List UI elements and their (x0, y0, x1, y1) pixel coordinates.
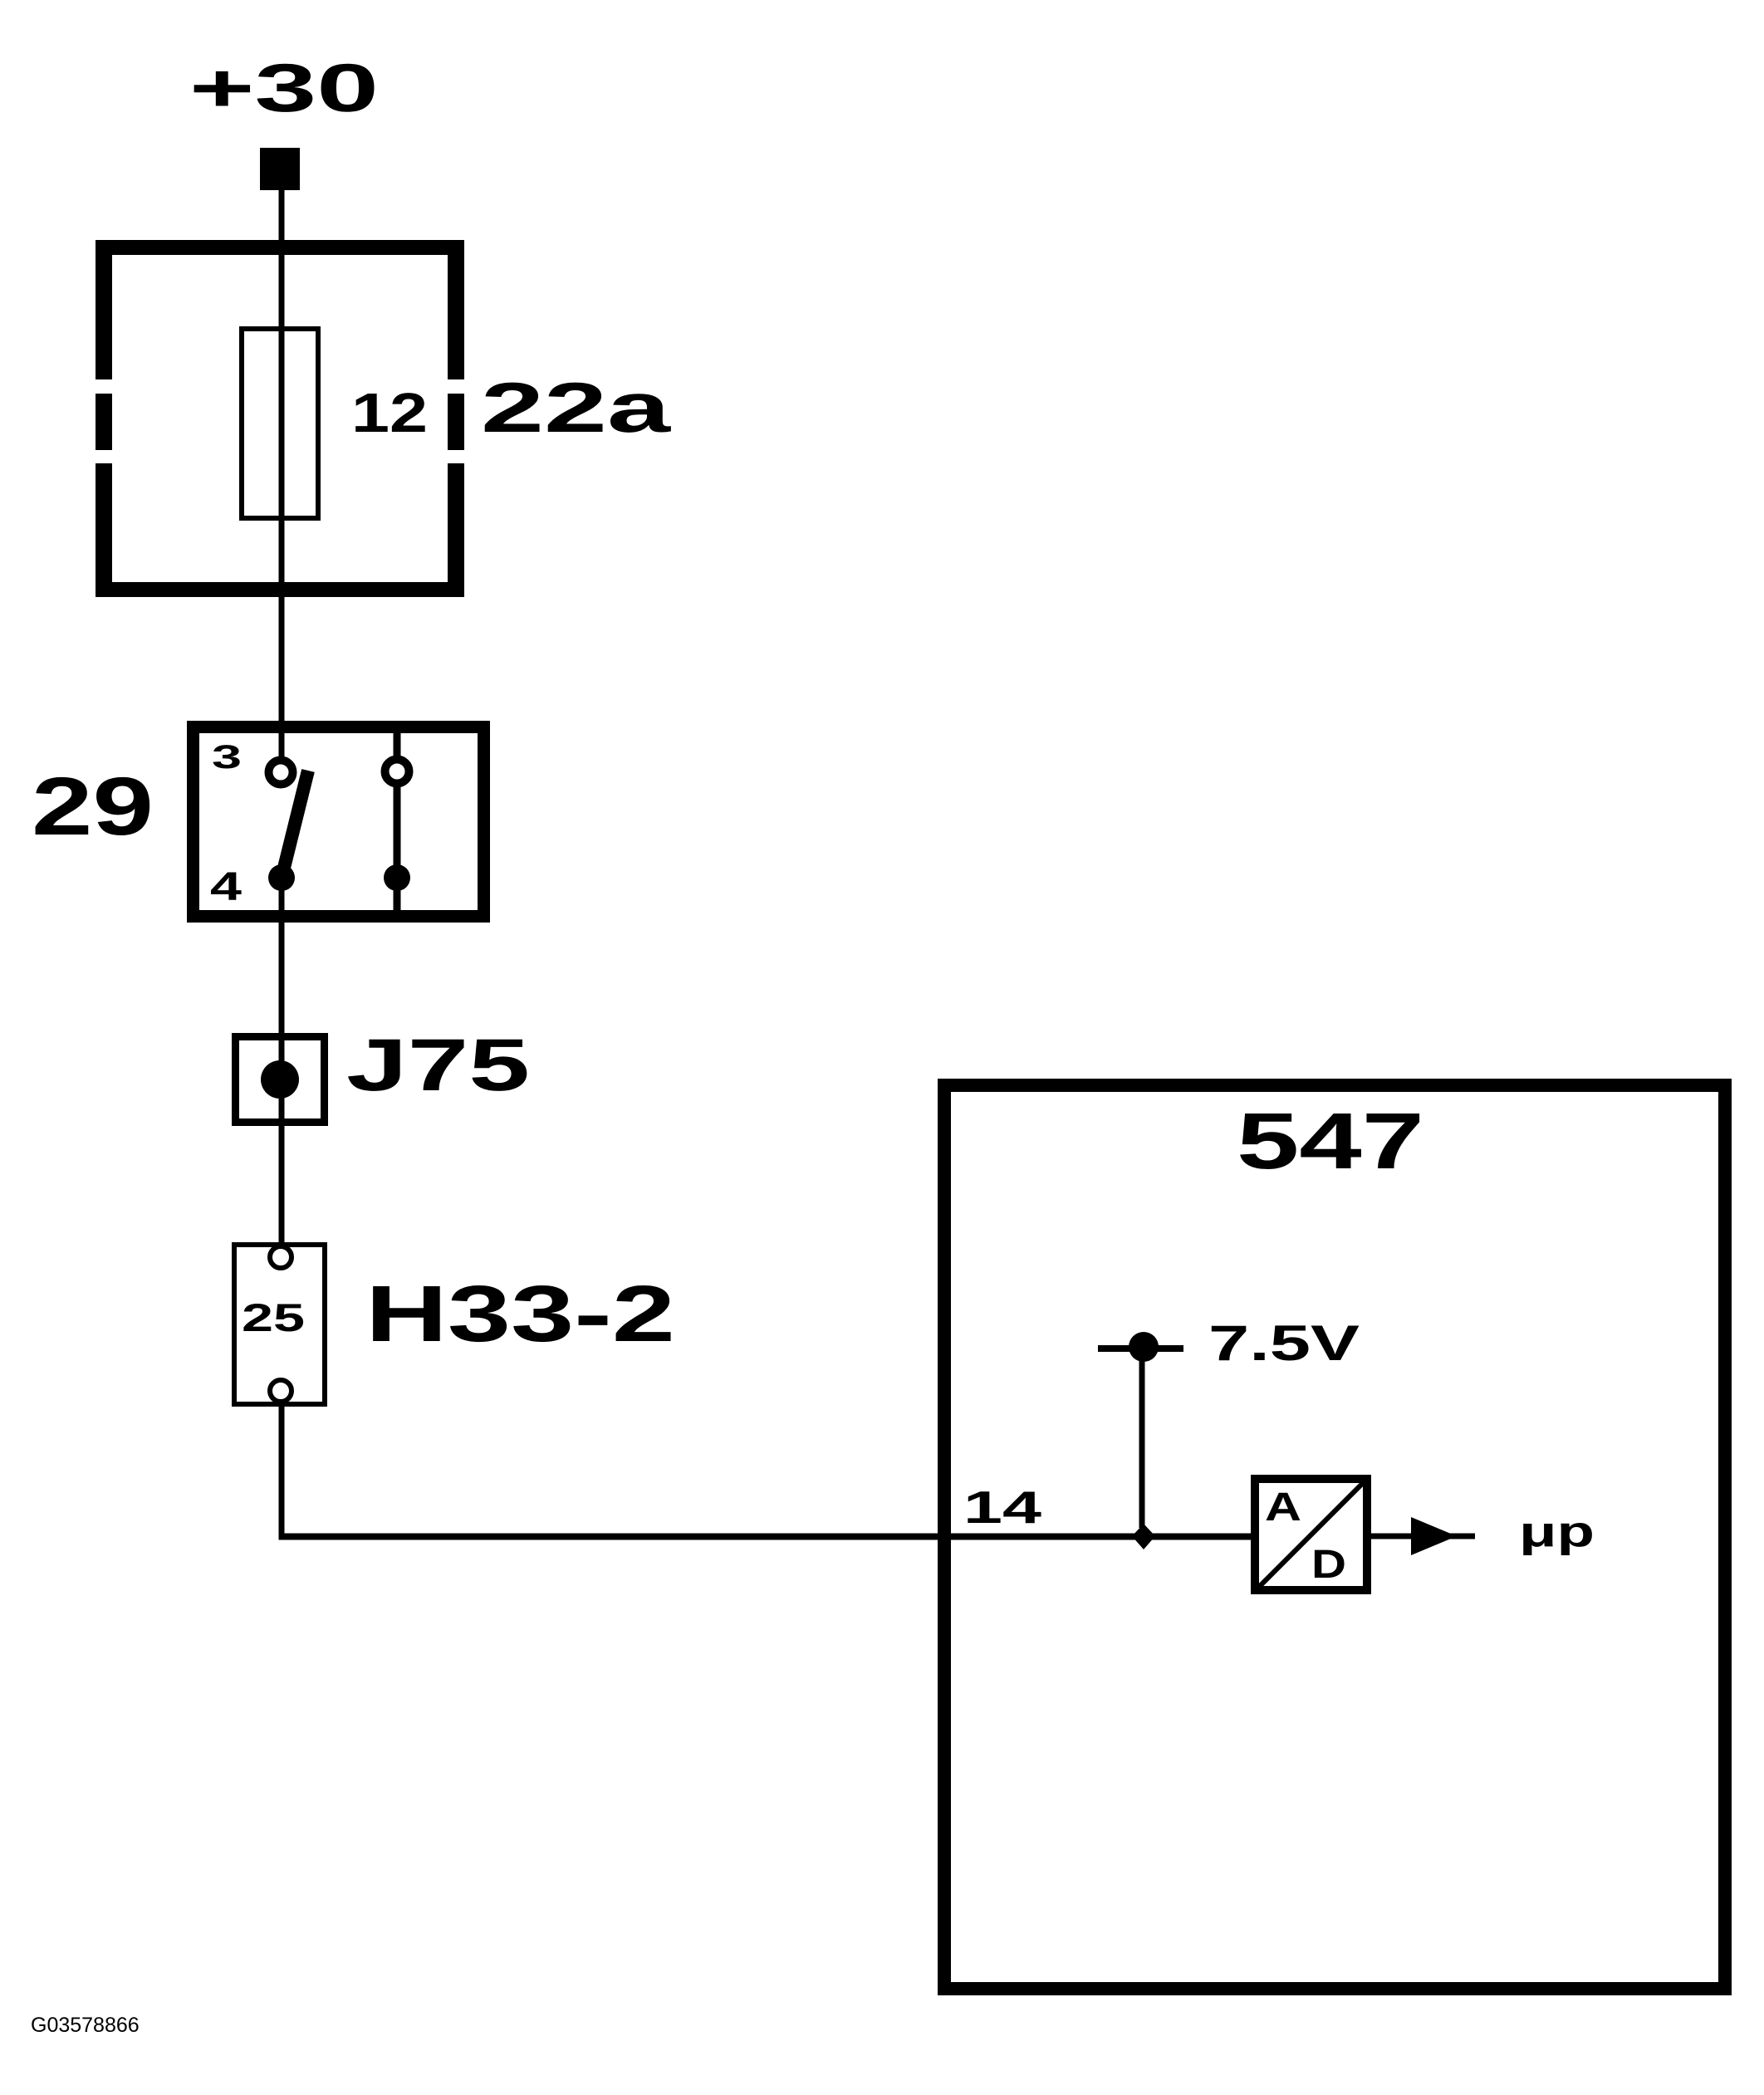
H33-2 bottom terminal circle (270, 1380, 292, 1402)
svg-text:H33-2: H33-2 (365, 1270, 675, 1358)
switch pole 1 contact circle (pin 3) (269, 761, 293, 785)
7.5V supply dot (1129, 1332, 1159, 1362)
svg-text:25: 25 (242, 1295, 305, 1339)
7.5V supply bar (1098, 1345, 1183, 1352)
svg-text:29: 29 (32, 760, 154, 852)
signal arrow head (1411, 1517, 1457, 1555)
svg-text:+30: +30 (189, 51, 379, 126)
junction node diamond (1132, 1524, 1155, 1549)
switch pole 2 contact dot (384, 864, 410, 891)
switch pole 2 wire lower (394, 878, 401, 913)
svg-text:547: 547 (1237, 1097, 1424, 1186)
A/D converter diagonal (1259, 1483, 1363, 1587)
wire 7.5V to junction (1139, 1360, 1145, 1528)
svg-text:4: 4 (210, 865, 242, 909)
fuse 12 element (242, 329, 318, 518)
svg-text:12: 12 (351, 382, 428, 444)
svg-text:22a: 22a (481, 369, 671, 448)
switch box 29 (194, 727, 484, 917)
switch pole 2 link (394, 784, 401, 878)
wire from H33-2 down (279, 1404, 285, 1539)
svg-text:D: D (1311, 1543, 1346, 1587)
svg-text:14: 14 (963, 1481, 1042, 1533)
wire from +30 terminal through fuse 12 to switch 29 (279, 188, 285, 756)
wire horizontal to module 547 pin 14 (279, 1534, 1256, 1540)
fuse box 22a (dashed border) (96, 240, 464, 597)
switch pole 1 contact dot (pin 4) (268, 864, 295, 891)
switch pole 2 contact circle (385, 760, 409, 784)
fuse H33-2 box (234, 1245, 325, 1404)
control module 547 box (944, 1085, 1725, 1989)
connector J75 box (236, 1037, 325, 1123)
svg-text:A: A (1265, 1486, 1301, 1530)
switch pole 2 wire upper (394, 733, 401, 756)
switch pole 1 lever (283, 771, 308, 871)
A/D converter U1 box (1255, 1479, 1367, 1590)
svg-text:J75: J75 (346, 1023, 530, 1106)
svg-text:7.5V: 7.5V (1208, 1315, 1360, 1371)
svg-text:μp: μp (1519, 1508, 1595, 1556)
wire A/D to microprocessor (1367, 1534, 1475, 1539)
H33-2 top terminal circle (270, 1246, 292, 1268)
svg-text:G03578866: G03578866 (31, 2014, 140, 2037)
terminal square +30 (260, 148, 300, 190)
connector J75 dot (261, 1060, 299, 1099)
svg-text:3: 3 (212, 739, 242, 776)
wire from switch 29 pin 4 through J75 to H33-2 (279, 878, 285, 1246)
